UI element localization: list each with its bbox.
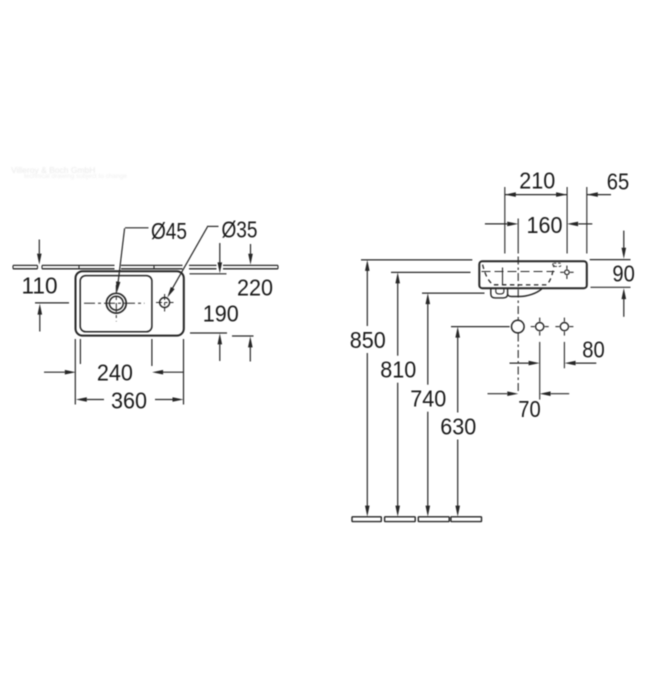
svg-text:850: 850 [350,327,386,353]
svg-text:80: 80 [582,337,605,363]
svg-text:360: 360 [111,388,147,414]
svg-text:Ø45: Ø45 [151,218,187,244]
svg-text:220: 220 [237,274,273,300]
svg-text:90: 90 [612,261,635,287]
svg-text:240: 240 [97,360,133,386]
svg-text:Ø35: Ø35 [222,216,258,242]
svg-text:810: 810 [380,357,416,383]
svg-text:65: 65 [607,168,630,194]
svg-text:210: 210 [519,167,555,193]
svg-text:630: 630 [440,413,476,439]
svg-text:740: 740 [410,386,446,412]
svg-text:190: 190 [203,301,239,327]
svg-text:160: 160 [527,212,563,238]
svg-text:110: 110 [22,273,58,299]
svg-text:70: 70 [518,396,541,422]
